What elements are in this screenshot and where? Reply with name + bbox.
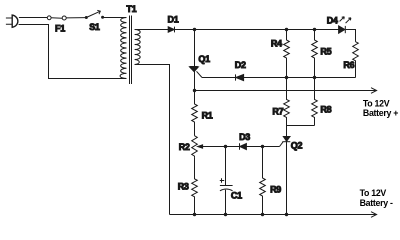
secondary bottom return wire xyxy=(135,65,170,215)
svg-text:F1: F1 xyxy=(55,24,65,34)
node R5 top xyxy=(313,28,316,31)
wiper wire to gate line xyxy=(201,146,240,148)
gate wire Q1 to D2 to R6 xyxy=(202,77,356,79)
resistor R7 xyxy=(284,78,290,126)
svg-text:R5: R5 xyxy=(320,46,331,56)
svg-text:To 12V: To 12V xyxy=(363,98,390,108)
svg-text:S1: S1 xyxy=(89,22,100,32)
svg-text:D3: D3 xyxy=(239,132,250,142)
node R3 bottom xyxy=(193,213,196,216)
potentiometer R2 xyxy=(192,136,203,158)
svg-text:R3: R3 xyxy=(178,181,189,191)
node C1 top xyxy=(224,145,227,148)
resistor R1 xyxy=(192,91,198,136)
svg-text:R2: R2 xyxy=(179,142,190,152)
svg-text:Battery -: Battery - xyxy=(360,198,393,208)
resistor R5 xyxy=(312,30,318,78)
wire secondary top to D1 xyxy=(135,29,169,31)
node R5 bottom xyxy=(313,76,316,79)
wire plug to fuse xyxy=(19,17,47,19)
capacitor C1 xyxy=(220,147,233,215)
svg-text:R7: R7 xyxy=(272,107,283,117)
resistor R4 xyxy=(284,30,290,78)
svg-text:T1: T1 xyxy=(126,4,136,14)
node R4 top xyxy=(285,28,288,31)
svg-text:R1: R1 xyxy=(202,111,213,121)
node Q2 cathode bottom xyxy=(285,213,288,216)
svg-text:R4: R4 xyxy=(271,39,282,49)
node R9 bottom xyxy=(261,213,264,216)
AC plug xyxy=(6,15,18,27)
svg-text:D1: D1 xyxy=(168,14,179,24)
svg-text:Q1: Q1 xyxy=(198,54,210,64)
transformer T1 core xyxy=(130,16,132,85)
SCR Q1 xyxy=(190,66,203,91)
switch S1 xyxy=(85,10,104,19)
resistor R8 xyxy=(312,78,318,126)
wire switch to transformer xyxy=(104,17,127,19)
transformer T1 secondary coil xyxy=(135,30,141,65)
fuse F1 xyxy=(47,16,66,20)
svg-text:D4: D4 xyxy=(327,15,338,25)
transformer T1 primary coil xyxy=(120,18,126,79)
diode D1 xyxy=(168,27,174,33)
wire down to Q1 xyxy=(194,30,196,67)
wire down to Q2 xyxy=(286,126,288,137)
svg-text:Q2: Q2 xyxy=(291,141,303,151)
top wire D1 to D4 xyxy=(175,29,339,31)
SCR Q2 xyxy=(280,137,291,215)
svg-text:R9: R9 xyxy=(270,185,281,195)
svg-text:Battery +: Battery + xyxy=(363,108,398,118)
wire fuse to switch xyxy=(66,17,85,19)
diode D3 xyxy=(240,143,247,149)
node Q1 cathode xyxy=(193,89,196,92)
LED D4 xyxy=(339,17,351,34)
node R9 top xyxy=(261,145,264,148)
wire D4 to R6 corner xyxy=(346,30,356,42)
wire R7 R8 bottoms joined xyxy=(287,125,315,127)
resistor R3 xyxy=(192,158,198,215)
plug bottom return wire xyxy=(19,25,127,79)
svg-text:To 12V: To 12V xyxy=(360,188,387,198)
bottom rail with arrow to battery minus xyxy=(170,212,377,218)
svg-text:R8: R8 xyxy=(320,104,331,114)
svg-text:D2: D2 xyxy=(235,60,246,70)
diode D2 xyxy=(236,74,244,80)
wire to battery plus with arrow xyxy=(195,88,377,94)
node C1 bottom xyxy=(224,213,227,216)
wire D3 to Q2 gate xyxy=(246,146,279,148)
resistor R6 xyxy=(353,42,359,78)
node at Q1 top xyxy=(193,28,196,31)
svg-text:R6: R6 xyxy=(343,60,354,70)
node R4 bottom xyxy=(285,76,288,79)
svg-text:C1: C1 xyxy=(231,190,242,200)
resistor R9 xyxy=(260,147,266,215)
